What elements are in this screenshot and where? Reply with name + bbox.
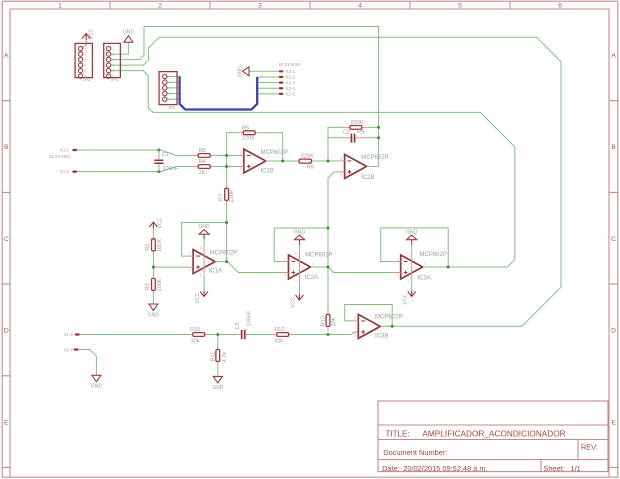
svg-text:5: 5 bbox=[354, 333, 356, 337]
svg-text:1: 1 bbox=[312, 262, 314, 266]
svg-text:2: 2 bbox=[169, 92, 171, 96]
svg-text:100nF: 100nF bbox=[163, 166, 179, 172]
junction IC1B minus node bbox=[225, 154, 228, 157]
svg-text:30k: 30k bbox=[191, 338, 200, 344]
wire JP2 pin1 to VCC bbox=[82, 40, 87, 49]
svg-text:REV:: REV: bbox=[581, 443, 598, 452]
resistor R8 bbox=[294, 153, 318, 170]
junction R13 bottom node bbox=[327, 333, 330, 336]
wire JP3 pin stubs to bus bbox=[167, 77, 179, 100]
svg-text:220K: 220K bbox=[301, 153, 314, 159]
IC3B plus stub bbox=[354, 331, 358, 333]
wire net JP1 pin4 to IC3B output (H2) bbox=[111, 37, 562, 326]
svg-text:C2: C2 bbox=[343, 130, 350, 136]
frame column numbers bbox=[58, 2, 562, 9]
svg-text:X1-2: X1-2 bbox=[60, 169, 70, 174]
svg-text:B: B bbox=[4, 144, 9, 151]
wire divider VCC to R2 bbox=[152, 228, 154, 234]
svg-text:X1-3: X1-3 bbox=[64, 332, 74, 337]
GND symbol above JP1 bbox=[123, 30, 135, 43]
wire R6 right to IC1B output bbox=[261, 133, 283, 161]
junction R11 top node bbox=[216, 333, 219, 336]
svg-text:D: D bbox=[611, 328, 616, 335]
svg-text:GND: GND bbox=[91, 384, 103, 390]
junction IC1B output node bbox=[281, 160, 284, 163]
svg-text:6: 6 bbox=[340, 157, 342, 161]
wire IC3A feedback loop bbox=[381, 228, 449, 267]
svg-text:R11: R11 bbox=[210, 352, 216, 362]
wire IC2B minus node up to R9 bbox=[328, 127, 344, 161]
svg-text:A: A bbox=[611, 53, 616, 60]
junction C1 top node bbox=[157, 149, 160, 152]
frame row ticks bbox=[2, 101, 618, 468]
wire IC1A output to IC2A plus bbox=[220, 262, 284, 273]
svg-text:100K: 100K bbox=[157, 278, 163, 291]
wire IC2B plus down to IC2A loop and R13 bbox=[328, 172, 340, 309]
svg-text:R12: R12 bbox=[274, 327, 284, 333]
op-amp IC1A bbox=[188, 239, 237, 290]
svg-text:1: 1 bbox=[169, 98, 171, 102]
svg-text:3: 3 bbox=[113, 58, 115, 62]
wire R11 to GND bbox=[217, 367, 219, 376]
wire X2 pin1 to GND bbox=[249, 70, 279, 72]
op-amp IC2A bbox=[284, 245, 333, 294]
svg-text:MCP602P: MCP602P bbox=[375, 315, 402, 321]
svg-text:220K: 220K bbox=[229, 189, 235, 202]
junction IC2A output node bbox=[327, 266, 330, 269]
svg-text:VCC: VCC bbox=[195, 293, 201, 304]
svg-text:3: 3 bbox=[189, 268, 191, 272]
GND symbol below R3 bbox=[148, 304, 160, 318]
resistor R12 bbox=[271, 327, 294, 344]
op-amp IC2B bbox=[340, 154, 389, 181]
wire C3 to R12 bbox=[250, 334, 271, 336]
svg-text:R5: R5 bbox=[199, 148, 206, 154]
svg-text:R13: R13 bbox=[321, 316, 327, 326]
GND symbol above IC1A bbox=[199, 224, 211, 240]
svg-text:8: 8 bbox=[295, 251, 297, 255]
capacitor C3 bbox=[235, 310, 252, 339]
capacitor C2 bbox=[343, 130, 361, 143]
svg-text:R4: R4 bbox=[199, 159, 206, 165]
svg-text:4: 4 bbox=[113, 64, 115, 68]
svg-text:R8: R8 bbox=[307, 165, 314, 171]
svg-text:X2-1: X2-1 bbox=[286, 69, 296, 74]
svg-text:TITLE:: TITLE: bbox=[386, 429, 410, 438]
svg-text:GND: GND bbox=[406, 229, 418, 235]
svg-text:IC2A: IC2A bbox=[305, 275, 318, 281]
wire IC1A feedback loop bbox=[182, 223, 227, 257]
capacitor C1 bbox=[154, 150, 179, 172]
wire R10 to C3 bbox=[210, 334, 236, 336]
junction IC2B minus node bbox=[327, 160, 330, 163]
op-amp IC3A bbox=[396, 245, 447, 291]
svg-text:22-23-2941: 22-23-2941 bbox=[49, 154, 72, 159]
svg-text:5: 5 bbox=[113, 69, 115, 73]
wire node column R7 lower to IC1A output bbox=[226, 206, 228, 262]
wire IC2A output to IC3A plus bbox=[328, 267, 396, 273]
wire C2 right to H1 column bbox=[361, 137, 378, 139]
svg-text:JP1: JP1 bbox=[111, 77, 119, 82]
svg-text:GND: GND bbox=[199, 224, 211, 230]
wire R4 to IC1B plus node bbox=[216, 166, 239, 168]
connector JP3 bbox=[159, 72, 177, 111]
svg-text:1: 1 bbox=[424, 262, 426, 266]
junction C2 right node bbox=[377, 136, 380, 139]
wire IC3B output stub link bbox=[385, 325, 392, 327]
wire R6 feedback top bbox=[227, 132, 238, 134]
svg-text:X2-3: X2-3 bbox=[286, 80, 296, 85]
junction R9 right node bbox=[377, 126, 380, 129]
wire net X1-3 to R10 bbox=[82, 334, 187, 336]
frame column ticks bbox=[110, 1, 510, 9]
svg-text:4.7k: 4.7k bbox=[222, 352, 228, 363]
resistor R4 bbox=[193, 159, 216, 176]
junction IC1A loop top node bbox=[225, 221, 228, 224]
svg-text:7: 7 bbox=[267, 156, 269, 160]
svg-text:1K: 1K bbox=[199, 170, 206, 176]
wire JP1 pin2 to GND bbox=[111, 42, 129, 54]
svg-text:C3: C3 bbox=[235, 322, 241, 329]
svg-text:6: 6 bbox=[240, 151, 242, 155]
svg-text:5: 5 bbox=[340, 173, 342, 177]
svg-text:C1: C1 bbox=[162, 152, 169, 158]
svg-text:VCC: VCC bbox=[89, 29, 95, 40]
svg-text:5: 5 bbox=[85, 69, 87, 73]
svg-text:X1-4: X1-4 bbox=[64, 348, 74, 353]
svg-text:VCC: VCC bbox=[157, 218, 163, 229]
GND symbol at X2 bbox=[237, 66, 249, 78]
svg-text:JP3: JP3 bbox=[168, 105, 176, 110]
connector JP2 bbox=[75, 43, 92, 82]
svg-text:20/02/2015 09:52:48 a.m.: 20/02/2015 09:52:48 a.m. bbox=[403, 464, 487, 473]
svg-text:8: 8 bbox=[407, 251, 409, 255]
op-amp IC1B bbox=[239, 149, 288, 175]
wire IC1B output to R8 bbox=[270, 160, 293, 162]
svg-text:6: 6 bbox=[558, 2, 562, 9]
svg-text:GND: GND bbox=[294, 229, 306, 235]
wire net JP1 pin5 to IC3A output (rail) bbox=[111, 71, 515, 267]
pin X1-3 bbox=[64, 332, 85, 337]
svg-text:GND: GND bbox=[237, 66, 243, 78]
frame row letters bbox=[4, 53, 616, 427]
resistor R10 bbox=[187, 327, 210, 344]
svg-text:Date:: Date: bbox=[382, 464, 400, 473]
junction IC3A output node bbox=[447, 266, 450, 269]
svg-text:4: 4 bbox=[200, 274, 202, 278]
svg-text:VCC: VCC bbox=[290, 297, 296, 308]
wire R2 to R3 bbox=[152, 256, 154, 273]
svg-text:3: 3 bbox=[258, 2, 262, 9]
resistor R3 bbox=[145, 273, 163, 296]
wire IC3B feedback loop bbox=[345, 305, 393, 327]
svg-text:AMPLIFICADOR_ACONDICIONADOR: AMPLIFICADOR_ACONDICIONADOR bbox=[422, 429, 565, 438]
wire R11 branch down bbox=[217, 335, 219, 345]
svg-text:E: E bbox=[611, 419, 616, 426]
wire R3 to GND bbox=[152, 296, 154, 304]
svg-text:7: 7 bbox=[382, 322, 384, 326]
svg-text:4: 4 bbox=[295, 279, 297, 283]
svg-text:100K: 100K bbox=[157, 238, 163, 251]
bus JP3 to X2 bbox=[180, 76, 258, 109]
svg-text:VCC: VCC bbox=[403, 294, 409, 305]
svg-text:4: 4 bbox=[85, 64, 87, 68]
pin X1-2 bbox=[60, 169, 82, 174]
junction C1 bottom node bbox=[157, 170, 160, 173]
wire net X1-2 to C1/R4 bbox=[79, 167, 193, 172]
svg-text:5: 5 bbox=[169, 75, 171, 79]
junction IC3B output node bbox=[391, 325, 394, 328]
GND symbol below R11 bbox=[212, 376, 224, 390]
svg-text:4: 4 bbox=[358, 2, 362, 9]
svg-text:2: 2 bbox=[85, 53, 87, 57]
GND symbol above IC2A bbox=[294, 229, 306, 245]
svg-text:Sheet:: Sheet: bbox=[543, 464, 564, 473]
svg-text:JP2: JP2 bbox=[83, 77, 91, 82]
connector JP1 bbox=[104, 43, 121, 82]
svg-text:1: 1 bbox=[113, 47, 115, 51]
svg-text:D: D bbox=[4, 328, 9, 335]
svg-text:7: 7 bbox=[368, 162, 370, 166]
svg-text:3: 3 bbox=[284, 273, 286, 277]
svg-text:C: C bbox=[611, 236, 616, 243]
svg-text:100nF: 100nF bbox=[246, 310, 252, 326]
svg-text:4: 4 bbox=[169, 81, 171, 85]
VCC symbol at JP2 bbox=[82, 29, 94, 40]
junction IC2A loop top node bbox=[327, 227, 330, 230]
wire R9 right to H1 column bbox=[367, 126, 378, 128]
VCC symbol below IC1A bbox=[195, 291, 208, 304]
svg-text:A: A bbox=[4, 53, 9, 60]
svg-text:IC1B: IC1B bbox=[261, 169, 274, 175]
GND symbol below X1-4 bbox=[91, 375, 103, 389]
GND symbol above IC3A bbox=[406, 229, 418, 245]
svg-text:R2: R2 bbox=[145, 244, 151, 251]
resistor R2 bbox=[145, 233, 163, 256]
svg-text:2: 2 bbox=[113, 53, 115, 57]
svg-text:R6: R6 bbox=[242, 125, 249, 131]
svg-text:1: 1 bbox=[58, 2, 62, 9]
wire net X1-4 to GND bbox=[81, 350, 97, 376]
svg-text:4: 4 bbox=[407, 279, 409, 283]
svg-text:1/1: 1/1 bbox=[571, 464, 581, 473]
resistor R6 bbox=[238, 125, 261, 141]
svg-text:10k: 10k bbox=[331, 317, 337, 326]
wire IC2B output stub to column bbox=[371, 165, 379, 167]
title block bbox=[378, 401, 608, 473]
pin header X2 pins bbox=[279, 62, 302, 96]
wire divider node to IC1A plus bbox=[153, 266, 188, 268]
svg-text:3: 3 bbox=[85, 58, 87, 62]
resistor R11 bbox=[210, 344, 228, 367]
resistor R5 bbox=[193, 148, 216, 157]
wire IC2A output node bbox=[315, 266, 328, 268]
wire R8 to IC2B minus node bbox=[317, 160, 340, 162]
svg-text:3: 3 bbox=[169, 86, 171, 90]
wire R5 to IC1B minus node bbox=[216, 155, 239, 157]
svg-text:10k: 10k bbox=[274, 338, 283, 344]
VCC symbol above R2 bbox=[149, 218, 163, 229]
svg-text:R3: R3 bbox=[145, 283, 151, 290]
svg-text:E: E bbox=[4, 419, 9, 426]
wire R12 to R13 node and IC3B plus bbox=[294, 332, 354, 335]
pin X1-4 bbox=[64, 348, 84, 353]
junction divider node bbox=[152, 266, 155, 269]
wire C2 branch left bbox=[328, 137, 345, 139]
wire node column R6/R7 upper bbox=[226, 133, 228, 183]
svg-text:IC3A: IC3A bbox=[418, 276, 431, 282]
svg-text:MCP602P: MCP602P bbox=[420, 252, 447, 258]
svg-text:GND: GND bbox=[148, 312, 160, 318]
svg-text:GND: GND bbox=[123, 30, 135, 36]
svg-text:B: B bbox=[611, 144, 616, 151]
svg-text:220K: 220K bbox=[351, 120, 364, 126]
svg-text:Document Number:: Document Number: bbox=[383, 448, 447, 457]
svg-text:3: 3 bbox=[396, 273, 398, 277]
svg-text:IC1A: IC1A bbox=[209, 269, 222, 275]
svg-text:22-23-2061: 22-23-2061 bbox=[279, 62, 302, 67]
junction IC1A output node bbox=[225, 260, 228, 263]
svg-text:R9: R9 bbox=[357, 130, 364, 136]
svg-text:MCP602P: MCP602P bbox=[361, 155, 388, 161]
svg-text:MCP602P: MCP602P bbox=[261, 150, 288, 156]
svg-text:MCP602P: MCP602P bbox=[305, 253, 332, 259]
svg-text:5: 5 bbox=[240, 167, 242, 171]
svg-text:6: 6 bbox=[354, 317, 356, 321]
svg-text:X2-5: X2-5 bbox=[286, 92, 296, 97]
svg-text:R7: R7 bbox=[218, 194, 224, 201]
svg-text:R10: R10 bbox=[190, 327, 200, 333]
VCC symbol below IC2A bbox=[290, 294, 303, 308]
wire net JP1 pin3 to IC2B feedback node (H1) bbox=[111, 27, 379, 167]
op-amp IC3B bbox=[353, 314, 402, 339]
svg-text:GND: GND bbox=[212, 385, 224, 391]
svg-text:5: 5 bbox=[458, 2, 462, 9]
junction IC1B plus node bbox=[225, 165, 228, 168]
resistor R9 bbox=[344, 120, 367, 136]
svg-text:MCP602P: MCP602P bbox=[210, 251, 237, 257]
wire bus to X2 pin stubs bbox=[258, 77, 279, 94]
svg-text:8: 8 bbox=[200, 246, 202, 250]
svg-text:IC2B: IC2B bbox=[361, 175, 374, 181]
pin X1-1 bbox=[49, 148, 82, 159]
svg-text:X1-1: X1-1 bbox=[60, 148, 70, 153]
svg-text:2: 2 bbox=[158, 2, 162, 9]
resistor R7 bbox=[218, 183, 235, 206]
svg-text:X2-4: X2-4 bbox=[286, 86, 296, 91]
svg-text:2: 2 bbox=[284, 257, 286, 261]
svg-text:220K: 220K bbox=[242, 135, 255, 141]
wire IC2A feedback loop bbox=[274, 228, 328, 262]
svg-text:1: 1 bbox=[216, 257, 218, 261]
svg-text:IC3B: IC3B bbox=[375, 334, 388, 340]
svg-text:2: 2 bbox=[396, 257, 398, 261]
VCC symbol below IC3A bbox=[403, 291, 416, 305]
svg-text:1: 1 bbox=[85, 47, 87, 51]
svg-text:2: 2 bbox=[189, 252, 191, 256]
wire net X1-1 to C1/R5 bbox=[79, 150, 193, 156]
svg-text:X2-2: X2-2 bbox=[286, 75, 296, 80]
svg-text:C: C bbox=[4, 236, 9, 243]
resistor R13 bbox=[321, 309, 338, 332]
